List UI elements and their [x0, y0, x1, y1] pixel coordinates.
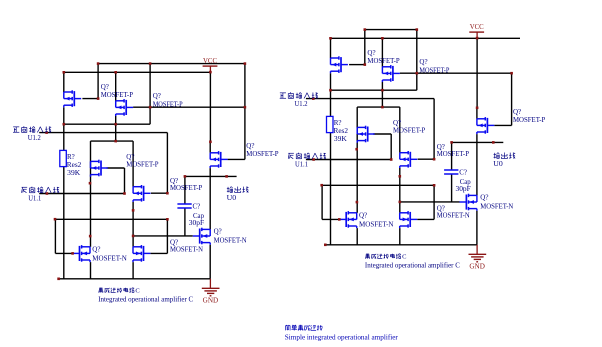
left circuit label Q5 — [170, 177, 202, 192]
right circuit wire: resistor to bottom — [330, 133, 332, 245]
right circuit resistor R1 39K — [327, 116, 334, 132]
right circuit label C1 — [456, 168, 472, 193]
left circuit label Q6 — [246, 142, 278, 158]
svg-text:MOSFET-P: MOSFET-P — [126, 161, 158, 169]
svg-text:GND: GND — [469, 263, 485, 271]
svg-text:MOSFET-P: MOSFET-P — [246, 150, 278, 158]
left circuit wire: input drop to Q5 gate — [151, 133, 168, 194]
svg-text:MOSFET-P: MOSFET-P — [153, 100, 183, 108]
svg-text:Res2: Res2 — [334, 127, 349, 135]
svg-text:VCC: VCC — [203, 57, 217, 65]
right circuit wire: Q2 source drop — [381, 82, 383, 107]
left circuit label N3 — [214, 228, 247, 245]
left circuit node noninverting input — [13, 126, 51, 142]
svg-text:MOSFET-P: MOSFET-P — [419, 66, 449, 74]
svg-text:U1.1: U1.1 — [28, 195, 41, 203]
left circuit transistor N5 MOSFET-N — [133, 245, 150, 262]
left circuit wire: N5 source drop — [132, 262, 134, 279]
right circuit wire: N3 source drop — [476, 211, 478, 245]
left circuit wire: vertical x150 — [149, 64, 151, 125]
left circuit label Q2 — [153, 92, 183, 108]
right circuit transistor Q6 MOSFET-P — [477, 117, 494, 134]
left circuit VCC symbol — [203, 66, 218, 72]
svg-text:MOSFET-P: MOSFET-P — [513, 116, 545, 124]
right circuit wire: Q5 source to N5 drain — [399, 168, 401, 213]
svg-text:Res2: Res2 — [67, 161, 82, 169]
svg-text:Q?: Q? — [480, 194, 488, 202]
left circuit wire: Q1 gate tie — [82, 64, 98, 99]
left circuit wire: non-inverting input — [39, 132, 167, 134]
right circuit label Q5 — [437, 143, 469, 158]
left circuit transistor Q4 MOSFET-P — [91, 160, 108, 177]
left circuit wire: output line — [185, 175, 237, 177]
left circuit wire: Q2 drain drop — [115, 72, 117, 101]
right circuit label N5 — [437, 205, 470, 220]
svg-text:30pF: 30pF — [456, 185, 471, 193]
right circuit wire: cap bottom stem — [451, 174, 453, 202]
right circuit label R1 — [334, 119, 349, 143]
svg-text:U0: U0 — [493, 160, 503, 168]
left circuit wire: cap bottom stem — [184, 208, 186, 236]
right circuit transistor Q1 MOSFET-P — [331, 56, 348, 73]
left circuit wire: VCC stem down — [209, 72, 211, 142]
right circuit wire: left rail upper — [330, 38, 332, 58]
svg-text:C: C — [135, 287, 139, 294]
svg-text:MOSFET-N: MOSFET-N — [480, 203, 513, 211]
left circuit wire: Q4 gate jog — [107, 168, 125, 194]
left circuit wire: Q6 drain feed — [209, 142, 211, 153]
right circuit wire: Q4 gate jog — [373, 134, 391, 160]
left circuit junction dots — [45, 62, 246, 280]
left circuit wire: output stage gate bus — [133, 235, 193, 237]
svg-text:U0: U0 — [227, 194, 237, 202]
bottom title — [285, 325, 399, 341]
left circuit ground — [202, 279, 220, 296]
left circuit wire: mirror gate rail — [133, 106, 245, 108]
svg-text:U1.2: U1.2 — [28, 134, 41, 142]
right circuit caption — [365, 253, 460, 269]
svg-text:Q?: Q? — [359, 211, 367, 219]
right circuit wire: Q2 drain drop — [381, 38, 383, 67]
svg-text:Q?: Q? — [246, 142, 254, 150]
svg-text:R?: R? — [67, 153, 75, 161]
left circuit wire: ground rail — [58, 278, 211, 280]
left circuit wire: box right to Q5 — [132, 141, 134, 187]
svg-text:Q?: Q? — [513, 108, 521, 116]
right circuit wire: output line — [452, 141, 504, 143]
right circuit transistor N1 MOSFET-N — [339, 211, 356, 228]
right circuit transistor Q5 MOSFET-P — [400, 151, 417, 168]
left circuit label N1 — [92, 245, 127, 262]
right circuit wire: box right to Q5 — [399, 107, 401, 153]
right circuit junction dots — [312, 28, 513, 246]
right circuit wire: non-inverting input — [306, 98, 434, 100]
left circuit transistor Q6 MOSFET-P — [210, 151, 227, 168]
right circuit label Q4 — [393, 119, 425, 135]
right circuit GND label — [469, 263, 485, 271]
right circuit wire: N1 gate drop — [322, 185, 339, 219]
left circuit transistor N1 MOSFET-N — [73, 245, 90, 262]
right circuit wire: Q1 source to resistor — [330, 73, 332, 116]
right circuit wire: mirror gate rail — [400, 72, 512, 74]
right circuit wire: cap top stem — [451, 142, 453, 170]
left circuit wire: inverting input — [39, 193, 124, 195]
left circuit wire: N3 source drop — [209, 245, 211, 279]
left circuit wire: mirror bus — [55, 218, 167, 220]
left circuit wire: diag rail — [64, 123, 150, 125]
left circuit wire: output column — [209, 168, 211, 229]
svg-text:MOSFET-P: MOSFET-P — [101, 91, 133, 99]
right circuit wire: output stage gate bus — [400, 201, 460, 203]
right circuit wire: VDD top rail — [365, 29, 417, 31]
left circuit capacitor C1 30pF — [177, 204, 191, 208]
right circuit wire: N5 source drop — [399, 228, 401, 245]
left circuit wire: box top — [91, 140, 134, 142]
svg-text:MOSFET-P: MOSFET-P — [437, 150, 469, 158]
svg-text:R?: R? — [334, 119, 342, 127]
right circuit wire: diag rail — [331, 89, 417, 91]
left circuit wire: cap top stem — [184, 176, 186, 204]
svg-text:MOSFET-N: MOSFET-N — [92, 254, 127, 262]
svg-text:MOSFET-P: MOSFET-P — [393, 127, 425, 135]
svg-text:39K: 39K — [67, 169, 80, 177]
right circuit wire: box top — [357, 106, 400, 108]
left circuit wire: resistor to bottom — [63, 167, 65, 279]
left circuit VCC label — [203, 57, 217, 65]
svg-text:Q?: Q? — [153, 92, 161, 100]
right circuit wire: input drop to Q5 gate — [418, 99, 435, 160]
svg-text:MOSFET-N: MOSFET-N — [170, 246, 203, 254]
right circuit transistor Q2 MOSFET-P — [382, 65, 399, 82]
left circuit wire: Q1 source to resistor — [63, 107, 65, 150]
svg-text:MOSFET-P: MOSFET-P — [170, 184, 202, 192]
left circuit node inverting input — [22, 187, 60, 203]
right circuit wire: VCC stem down — [476, 38, 478, 108]
left circuit label N5 — [170, 239, 203, 254]
right circuit VCC symbol — [469, 32, 484, 38]
left circuit label R1 — [67, 153, 82, 177]
right circuit ground — [469, 245, 487, 262]
left circuit wire: left rail upper — [63, 72, 65, 92]
right circuit capacitor C1 30pF — [444, 170, 458, 174]
right circuit node noninverting input — [280, 92, 318, 108]
svg-text:MOSFET-N: MOSFET-N — [437, 212, 470, 220]
right circuit wire: Q6 gate column — [494, 73, 511, 125]
right circuit VCC pin junction — [476, 37, 479, 40]
right circuit wire: N1 source drop — [356, 228, 358, 245]
svg-text:Q?: Q? — [419, 58, 427, 66]
right circuit label N3 — [480, 194, 513, 211]
right circuit wire: PMOS source rail — [331, 37, 521, 39]
left circuit wire: VDD top rail — [98, 63, 245, 65]
svg-text:VCC: VCC — [470, 23, 484, 31]
svg-text:MOSFET-N: MOSFET-N — [359, 220, 394, 228]
left circuit label C1 — [189, 202, 205, 227]
right circuit wire: Q6 drain feed — [476, 108, 478, 119]
right circuit wire: mirror bus — [322, 184, 434, 186]
left circuit resistor R1 39K — [60, 150, 67, 166]
svg-text:U1.2: U1.2 — [295, 100, 308, 108]
right circuit wire: inverting input — [306, 159, 391, 161]
left circuit wire: Q2 source drop — [115, 116, 117, 141]
svg-text:Q?: Q? — [214, 228, 222, 236]
right circuit wire: N5 gate jog — [417, 185, 434, 219]
svg-text:C?: C? — [193, 202, 201, 210]
right circuit node inverting input — [288, 153, 326, 169]
svg-text:C?: C? — [459, 168, 467, 176]
right circuit transistor N3 MOSFET-N — [460, 194, 477, 211]
right circuit label Q2 — [419, 58, 449, 74]
right circuit VCC label — [470, 23, 484, 31]
left circuit wire: box left / N1 drain — [90, 141, 92, 247]
right circuit label Q6 — [513, 108, 545, 124]
right circuit label Q1 — [367, 49, 399, 65]
left circuit wire: N5 gate jog — [151, 219, 168, 253]
right circuit wire: ground rail — [325, 244, 478, 246]
left circuit wire: N1 source drop — [90, 262, 92, 279]
right circuit wire: vertical x150 — [416, 30, 418, 91]
left circuit VCC pin junction — [209, 71, 212, 74]
left circuit label Q4 — [126, 153, 158, 169]
svg-text:C: C — [402, 253, 406, 260]
svg-text:GND: GND — [203, 297, 219, 305]
svg-text:MOSFET-N: MOSFET-N — [214, 237, 247, 245]
right circuit transistor Q4 MOSFET-P — [357, 126, 374, 143]
right circuit wire: box left / N1 drain — [356, 107, 358, 213]
svg-text:Q?: Q? — [101, 83, 109, 91]
svg-text:30pF: 30pF — [189, 219, 204, 227]
left circuit wire: PMOS source rail — [64, 71, 211, 73]
svg-text:Integrated operational amplifi: Integrated operational amplifier C — [365, 261, 460, 269]
right circuit wire: output column — [476, 134, 478, 195]
svg-text:39K: 39K — [334, 135, 347, 143]
left circuit node output — [227, 187, 249, 202]
left circuit caption — [98, 287, 193, 303]
svg-text:Integrated operational amplifi: Integrated operational amplifier C — [98, 295, 193, 303]
svg-text:Simple integrated operational: Simple integrated operational amplifier — [285, 333, 399, 341]
left circuit transistor Q2 MOSFET-P — [116, 99, 133, 116]
svg-text:Q?: Q? — [367, 49, 375, 57]
svg-text:MOSFET-P: MOSFET-P — [367, 57, 399, 65]
left circuit transistor N3 MOSFET-N — [193, 228, 210, 245]
left circuit transistor Q1 MOSFET-P — [64, 90, 81, 107]
left circuit label Q1 — [101, 83, 133, 99]
left circuit wire: N1 gate drop — [55, 219, 72, 253]
right circuit wire: Q1 gate tie — [349, 30, 365, 65]
left circuit GND label — [203, 297, 219, 305]
left circuit transistor Q5 MOSFET-P — [133, 185, 150, 202]
right circuit transistor N5 MOSFET-N — [400, 211, 417, 228]
right circuit node output — [493, 153, 515, 168]
svg-text:Q?: Q? — [92, 245, 100, 253]
svg-text:U1.1: U1.1 — [295, 161, 308, 169]
right circuit label N1 — [359, 211, 394, 228]
left circuit wire: Q6 gate column — [228, 64, 245, 160]
left circuit wire: Q5 source to N5 drain — [132, 202, 134, 247]
